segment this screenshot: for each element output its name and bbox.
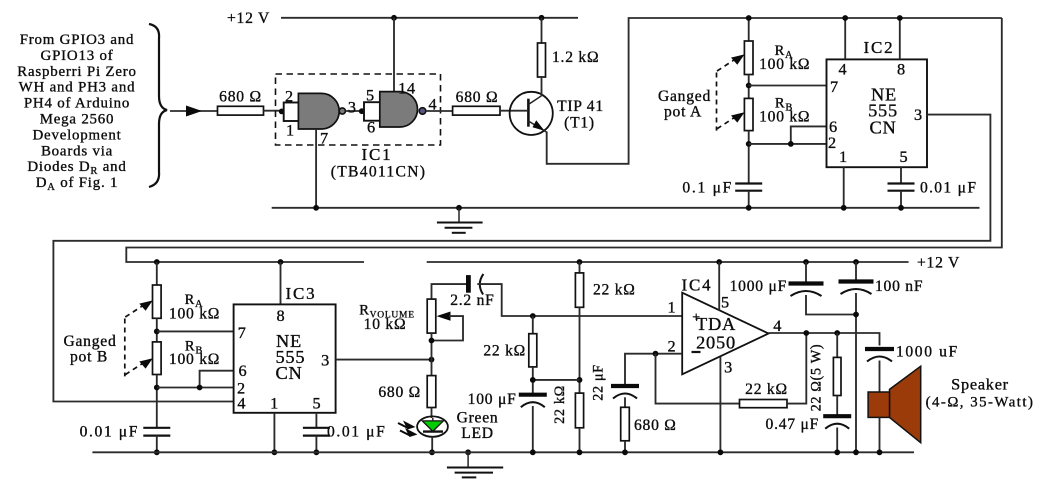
svg-text:7: 7 <box>830 77 839 96</box>
IC4 plus <box>692 311 701 326</box>
node wiper join <box>429 338 435 344</box>
svg-text:Speaker: Speaker <box>951 375 1009 394</box>
label RB potA <box>775 96 793 114</box>
wire IC4 output <box>769 333 880 346</box>
IC3 pin8 label <box>277 306 286 325</box>
wire rail to 22k1 <box>579 262 581 273</box>
svg-text:pot B: pot B <box>70 349 108 366</box>
wire IC3 pin3 out <box>336 359 432 361</box>
node zobel output <box>834 330 840 336</box>
label 680 ohm fb <box>634 417 677 434</box>
annotation: source boards text <box>17 32 136 193</box>
wire 22uF to 680 <box>624 397 626 407</box>
wire RB potB down <box>156 375 158 428</box>
svg-text:680 Ω: 680 Ω <box>219 89 262 106</box>
svg-text:(T1): (T1) <box>564 115 595 132</box>
IC2 name NE <box>871 85 897 105</box>
wire pot to node <box>431 333 433 376</box>
label RA potA value <box>759 56 810 73</box>
svg-text:From GPIO3 and: From GPIO3 and <box>20 32 135 48</box>
wire U1B out to R2 <box>426 110 453 112</box>
capacitor 22uF <box>611 386 639 399</box>
wire potB pin7 <box>157 330 234 332</box>
wire 0.01uF IC2 gnd <box>900 191 902 208</box>
svg-text:1: 1 <box>270 394 279 413</box>
wire 1000uF to link <box>806 295 856 315</box>
svg-text:(TB4011CN): (TB4011CN) <box>331 164 427 181</box>
label Green <box>457 410 499 427</box>
node pin1 gnd <box>841 205 847 211</box>
svg-text:Ganged: Ganged <box>658 88 711 105</box>
node pin2 fb <box>653 351 659 357</box>
IC3 pin6 label <box>238 361 247 380</box>
svg-text:680 Ω: 680 Ω <box>378 384 421 401</box>
pin 6 label <box>367 118 376 137</box>
IC2 pin5 label <box>900 147 909 166</box>
wire potA pin2 <box>749 143 827 145</box>
wire R1 to IC1 <box>264 110 285 112</box>
capacitor 0.01uF IC3 <box>303 428 330 436</box>
IC4 triangle <box>682 293 768 375</box>
node IC1 input A <box>279 109 285 115</box>
label 22k feedback <box>745 381 788 398</box>
wire IC3 pin5 to cap <box>315 413 317 428</box>
svg-text:LED: LED <box>461 425 494 442</box>
wire 680fb gnd <box>624 441 626 453</box>
wire R2 to Q1 base <box>500 110 527 112</box>
wire pin1line to 22k2 <box>532 316 534 334</box>
svg-text:+: + <box>692 311 701 326</box>
svg-text:8: 8 <box>897 60 906 79</box>
label IC4 <box>682 276 713 295</box>
label 0.01uF IC3 <box>327 424 386 441</box>
transistor Q1 TIP41 <box>510 92 553 135</box>
svg-text:IC4: IC4 <box>682 276 713 295</box>
svg-text:0.01 μF: 0.01 μF <box>80 424 139 441</box>
svg-text:1000 uF: 1000 uF <box>896 344 959 361</box>
IC2 pin2 label <box>828 133 837 152</box>
label 0.47uF <box>766 416 819 433</box>
node bias mid <box>530 377 536 383</box>
resistor 680 ohm input (R1) <box>218 106 264 115</box>
wire 22ohm to cap <box>836 396 838 415</box>
IC3 name NE <box>276 331 302 351</box>
svg-text:Development: Development <box>32 127 121 143</box>
node pin6 link B <box>197 385 203 391</box>
svg-text:5: 5 <box>366 86 375 105</box>
label 22k bottom rotated <box>552 385 568 424</box>
wire bus to IC3 pin8 <box>280 262 282 304</box>
label RA potB value <box>169 306 220 323</box>
label 22k bias <box>483 343 526 360</box>
ground line top section <box>272 207 980 209</box>
svg-text:WH and PH3 and: WH and PH3 and <box>19 80 136 96</box>
label Ganged potB <box>64 333 117 350</box>
svg-text:0.01 μF: 0.01 μF <box>920 180 977 197</box>
ground symbol bottom <box>447 452 503 477</box>
svg-text:(4-Ω, 35-Watt): (4-Ω, 35-Watt) <box>926 395 1035 411</box>
wire 22k1 to 22k3 <box>579 307 581 393</box>
+12V bottom rail right segment <box>427 261 909 263</box>
pin 2 label <box>285 87 294 106</box>
wire 22k3 gnd <box>579 428 581 453</box>
IC3 pin3 label <box>321 351 330 370</box>
label 22k top <box>593 282 636 299</box>
svg-text:5: 5 <box>312 394 321 413</box>
svg-text:22 Ω(5 W): 22 Ω(5 W) <box>808 344 824 412</box>
node rail to 1.2k <box>539 15 545 21</box>
wire 2.2nF to pot top <box>432 284 467 299</box>
IC2 pin7 label <box>830 77 839 96</box>
node rail 1000uF <box>803 259 809 265</box>
label 22uF rotated <box>591 364 607 401</box>
label 680 ohm LED <box>378 384 421 401</box>
svg-text:1.2 kΩ: 1.2 kΩ <box>552 49 599 66</box>
node potA mid <box>746 83 752 89</box>
wire fb to output <box>787 333 806 404</box>
resistor 22k top <box>575 273 583 307</box>
svg-text:3: 3 <box>321 351 330 370</box>
svg-text:IC1: IC1 <box>362 145 393 164</box>
svg-text:22 kΩ: 22 kΩ <box>483 343 526 360</box>
NAND gate U1A <box>284 93 346 129</box>
resistor RA pot B 100k <box>153 285 162 318</box>
svg-text:Green: Green <box>457 410 499 427</box>
label Speaker <box>951 375 1009 394</box>
ground rail bottom <box>92 451 914 453</box>
node potA bottom <box>746 141 752 147</box>
wire RA-RB potB <box>156 318 158 342</box>
svg-text:100 kΩ: 100 kΩ <box>169 351 220 368</box>
svg-text:4: 4 <box>237 394 246 413</box>
pin 14 label <box>398 79 416 98</box>
svg-text:3: 3 <box>724 358 733 377</box>
pin 5 label <box>366 86 375 105</box>
IC2 pin6 label <box>829 117 838 136</box>
svg-text:7: 7 <box>238 323 247 342</box>
IC2 pin4 label <box>839 60 848 79</box>
IC4 pin4 label <box>773 316 782 335</box>
IC3 box <box>234 304 336 412</box>
node pin3 volume <box>429 357 435 363</box>
node rail pin4 <box>842 15 848 21</box>
ganged pot B arrows <box>125 300 153 376</box>
svg-text:Boards via: Boards via <box>41 143 113 159</box>
node 0.01uF IC2 gnd <box>898 205 904 211</box>
svg-text:8: 8 <box>277 306 286 325</box>
label TDA <box>696 314 736 334</box>
IC2 pin1 label <box>839 147 848 166</box>
svg-text:TDA: TDA <box>696 314 736 334</box>
svg-text:100 μF: 100 μF <box>468 391 517 408</box>
label RA potA <box>775 43 794 61</box>
IC1 dashed outline <box>276 74 441 145</box>
IC4 pin1 label <box>667 298 676 317</box>
node pin6 link A <box>788 141 794 147</box>
svg-text:22 μF: 22 μF <box>591 364 607 401</box>
node potB bottom <box>154 385 160 391</box>
svg-text:1000 μF: 1000 μF <box>730 278 787 295</box>
resistor Rvolume 10k <box>427 299 436 333</box>
svg-text:100 kΩ: 100 kΩ <box>759 56 810 73</box>
node rail pin5 <box>716 259 722 265</box>
node 22k3 gnd <box>577 449 583 455</box>
IC3 pin7 label <box>238 323 247 342</box>
wire divider link <box>533 379 580 381</box>
svg-text:2: 2 <box>667 337 676 356</box>
resistor 680 ohm base (R2) <box>453 106 500 115</box>
wire 22k2 to 100uF <box>532 367 534 393</box>
svg-text:680 Ω: 680 Ω <box>456 89 499 106</box>
NAND gate U1B <box>364 92 426 127</box>
node 680fb gnd <box>622 449 628 455</box>
capacitor 1000uF supply <box>789 284 824 297</box>
label 10k <box>364 316 407 333</box>
label +12V bottom <box>917 255 960 272</box>
wire U1A out to U1B in <box>346 110 364 112</box>
node 100uF gnd <box>530 449 536 455</box>
svg-text:2.2 nF: 2.2 nF <box>450 292 494 309</box>
node speaker gnd <box>877 449 883 455</box>
wire +12V loop to bottom rail <box>126 18 1002 262</box>
label 680 ohm R2 <box>456 89 499 106</box>
label 0.01uF potB <box>80 424 139 441</box>
wire rail to 1000uF <box>805 262 807 282</box>
label pot A <box>664 104 702 121</box>
node fb output <box>803 330 809 336</box>
resistor RB pot B 100k <box>153 342 162 375</box>
wire rail to pin4 <box>844 18 846 59</box>
wire 0.47uF gnd <box>836 428 838 453</box>
+12V rail top <box>281 17 578 19</box>
label 1.2 kohm <box>552 49 599 66</box>
label RA potB <box>185 292 204 310</box>
IC3 pin2 label <box>237 379 246 398</box>
label Ganged potA <box>658 88 711 105</box>
node input bias <box>530 313 536 319</box>
pin 3 label <box>348 98 357 117</box>
node IC4 pin3 gnd <box>718 449 724 455</box>
label 0.01uF IC2 <box>920 180 977 197</box>
pin 1 label <box>286 121 295 140</box>
svg-text:6: 6 <box>367 118 376 137</box>
node gnd symbol top <box>456 205 462 211</box>
wire IC2 pin5 to cap <box>900 167 902 183</box>
svg-text:5: 5 <box>900 147 909 166</box>
wire fb down <box>656 354 740 404</box>
node rail pin8 <box>897 15 903 21</box>
node 0.47uF gnd <box>834 449 840 455</box>
wire rail to 100nF <box>855 262 857 280</box>
resistor 22k feedback <box>740 400 788 408</box>
wire potB pin6 link <box>200 371 234 388</box>
IC2 name CN <box>869 118 896 138</box>
svg-text:2: 2 <box>285 87 294 106</box>
label 2050 <box>696 333 736 353</box>
label 100nF <box>875 278 923 295</box>
svg-text:100 nF: 100 nF <box>875 278 923 295</box>
wire 680 to LED <box>431 408 433 419</box>
wire IC4 pin3 gnd <box>719 357 721 453</box>
resistor 22k bias <box>529 334 537 367</box>
Rvolume wiper loop <box>432 312 464 341</box>
wire 0.1uF to gnd <box>748 191 750 208</box>
wire 100uF gnd <box>532 406 534 452</box>
label IC3 <box>286 284 317 303</box>
svg-text:10 kΩ: 10 kΩ <box>364 316 407 333</box>
svg-text:7: 7 <box>320 129 329 148</box>
capacitor 0.1uF <box>735 184 762 191</box>
IC3 name 555 <box>275 347 305 367</box>
label speaker rating <box>926 395 1035 411</box>
svg-text:pot A: pot A <box>664 104 702 121</box>
svg-text:2050: 2050 <box>696 333 736 353</box>
ganged pot A arrows <box>717 54 745 130</box>
label 680 ohm R1 <box>219 89 262 106</box>
node bus RA potB <box>154 259 160 265</box>
node rail 100nF <box>853 259 859 265</box>
brace right of annotation <box>149 24 167 187</box>
wire outputcap to speaker <box>879 361 881 393</box>
label TB4011CN <box>331 164 427 181</box>
svg-text:PH4 of Arduino: PH4 of Arduino <box>24 96 130 112</box>
wire 0.01uF IC3 gnd <box>315 436 317 453</box>
node 100nF gnd <box>853 449 859 455</box>
wire IC3 pin1 gnd <box>273 413 275 453</box>
label IC1 <box>362 145 393 164</box>
node bus IC3 pin8 <box>278 259 284 265</box>
IC3 pin1 label <box>270 394 279 413</box>
wire speaker gnd <box>879 417 881 452</box>
IC3 name CN <box>275 363 302 383</box>
svg-text:4: 4 <box>839 60 848 79</box>
wire 100nF down to gnd <box>855 293 857 452</box>
resistor 22 ohm 5W <box>833 357 841 395</box>
svg-text:100 kΩ: 100 kΩ <box>759 109 810 126</box>
svg-text:+12 V: +12 V <box>227 10 270 27</box>
node potB mid <box>154 329 160 335</box>
label 100uF <box>468 391 517 408</box>
label IC2 <box>864 38 895 57</box>
label 1000uF output <box>896 344 959 361</box>
IC4 pin2 label <box>667 337 676 356</box>
wire rail to IC4 pin5 <box>718 262 720 310</box>
node IC1 mid <box>359 108 365 114</box>
wire IC4 pin2 <box>625 354 682 386</box>
capacitor 2.2nF <box>468 274 483 295</box>
svg-text:Raspberri Pi Zero: Raspberri Pi Zero <box>17 64 136 80</box>
IC2 pin3 label <box>914 105 923 124</box>
label 2.2nF <box>450 292 494 309</box>
node rail to pin14 <box>391 15 397 21</box>
LED arrows <box>398 421 418 438</box>
pin 7 wire IC1 <box>315 129 317 208</box>
IC2 name 555 <box>868 101 898 121</box>
capacitor 100uF <box>519 395 547 408</box>
svg-text:2: 2 <box>828 133 837 152</box>
wire IC2 pin3 loop to IC3 pin4 <box>53 115 990 402</box>
node 0.01uF potB gnd <box>154 449 160 455</box>
IC4 pin3 label <box>724 358 733 377</box>
IC2 box <box>827 59 928 167</box>
wire rail to RA potA <box>748 18 750 41</box>
svg-text:1: 1 <box>667 298 676 317</box>
svg-text:Mega 2560: Mega 2560 <box>40 112 115 128</box>
capacitor 0.01uF potB <box>143 428 170 436</box>
wire rail to 1.2k resistor <box>541 18 543 43</box>
capacitor 0.47uF <box>823 416 851 429</box>
node link <box>853 312 859 318</box>
node gnd symbol bottom <box>465 449 471 455</box>
label LED <box>461 425 494 442</box>
svg-text:680 Ω: 680 Ω <box>634 417 677 434</box>
node 0.1uF gnd <box>746 205 752 211</box>
label +12V top <box>227 10 270 27</box>
resistor 680 ohm LED <box>427 376 436 408</box>
wire 2.2nF to pin1 line <box>477 284 682 316</box>
IC3 pin4 label <box>237 394 246 413</box>
capacitor 0.01uF IC2 <box>888 184 915 191</box>
svg-text:CN: CN <box>275 363 302 383</box>
label 1000uF supply <box>730 278 787 295</box>
IC4 pin5 label <box>721 293 730 312</box>
node pin7 gnd <box>313 205 319 211</box>
svg-text:0.1 μF: 0.1 μF <box>682 180 733 197</box>
capacitor 100nF <box>839 282 874 295</box>
capacitor 1000uF output <box>865 349 894 362</box>
wire RA to RB potA <box>748 75 750 99</box>
wire rail to pin8 <box>899 18 901 59</box>
wire output to 22ohm <box>836 333 838 357</box>
pin 7 label <box>320 129 329 148</box>
label Rvolume <box>359 303 415 321</box>
node LED gnd <box>429 449 435 455</box>
svg-text:100 kΩ: 100 kΩ <box>169 306 220 323</box>
svg-text:22 kΩ: 22 kΩ <box>552 385 568 424</box>
node IC3 pin1 gnd <box>272 449 278 455</box>
wire potB pin2 <box>157 387 234 389</box>
wire rail to pin14 <box>393 18 395 92</box>
LED green D1 <box>417 416 448 436</box>
wire 0.01uF potB gnd <box>156 436 158 453</box>
pin 4 label <box>429 95 438 114</box>
wire Q1 emitter to IC2 rail <box>547 18 1002 164</box>
label RB potA value <box>759 109 810 126</box>
resistor 1.2 kohm collector <box>538 43 546 77</box>
IC2 pin8 label <box>897 60 906 79</box>
node rail 22k1 <box>577 259 583 265</box>
svg-text:0.01 μF: 0.01 μF <box>327 424 386 441</box>
svg-text:14: 14 <box>398 79 416 98</box>
label TIP 41 <box>557 98 604 115</box>
wire LED to gnd <box>431 437 433 453</box>
ground symbol top <box>437 208 483 233</box>
svg-text:CN: CN <box>869 118 896 138</box>
label RB potB value <box>169 351 220 368</box>
IC3 pin5 label <box>312 394 321 413</box>
resistor 22k bottom <box>575 393 583 428</box>
svg-text:1: 1 <box>839 147 848 166</box>
wire 1.2k to collector <box>541 77 543 96</box>
svg-text:22 kΩ: 22 kΩ <box>593 282 636 299</box>
label 22ohm rotated <box>808 344 824 412</box>
svg-text:IC3: IC3 <box>286 284 317 303</box>
label (T1) <box>564 115 595 132</box>
wire RB potA down <box>748 131 750 183</box>
speaker LS1 <box>868 366 921 443</box>
svg-text:IC2: IC2 <box>864 38 895 57</box>
wire potA pin6 link <box>791 126 827 143</box>
